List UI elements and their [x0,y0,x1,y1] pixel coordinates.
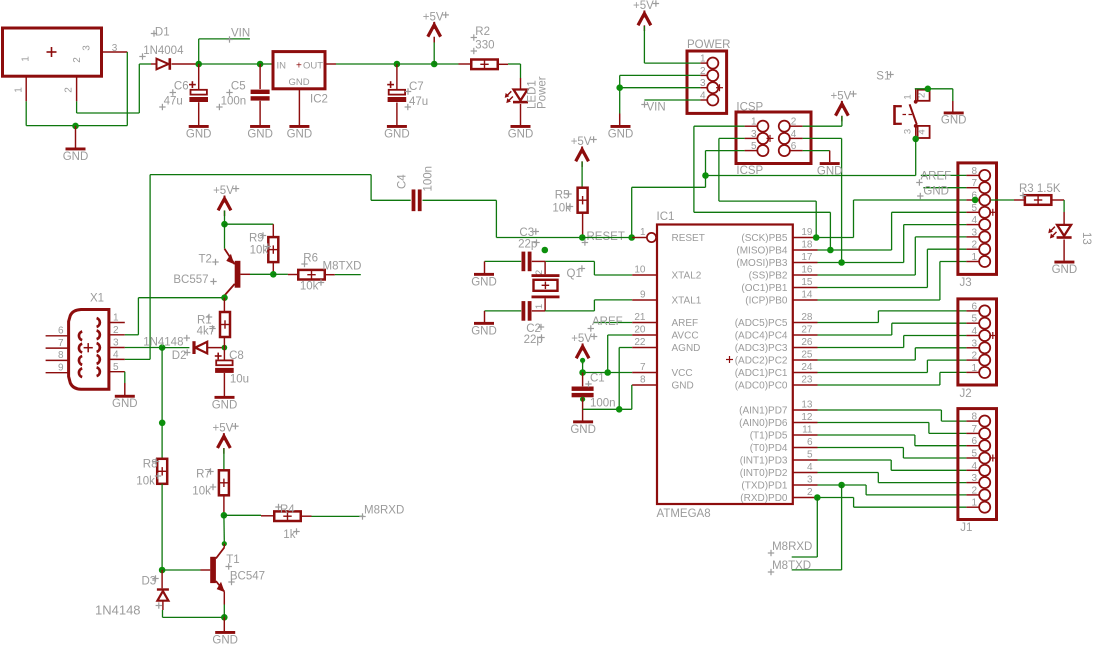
svg-text:3: 3 [700,78,706,89]
wire C2 left gnd [485,310,522,312]
wire jack pin1 to gnd rail [25,101,27,125]
svg-text:15: 15 [801,277,813,288]
svg-text:3: 3 [113,338,119,349]
wire R7 to R4 row [223,495,225,515]
diode D2 1N4148 [172,341,207,362]
svg-text:21: 21 [634,312,646,323]
switch S1 [876,71,929,139]
junction AVCC VCC [604,369,611,376]
svg-text:GND: GND [288,77,309,88]
svg-text:XTAL2: XTAL2 [672,271,702,282]
supply +5V R5 [571,136,597,187]
ground C7 [384,125,410,140]
svg-text:6: 6 [971,301,977,312]
wire ICSP pin1 MISO [694,126,831,250]
resistor R6 10k [298,253,325,293]
wire C1 gnd tee [582,398,584,421]
wire PD net y460 [818,460,967,470]
svg-text:R9: R9 [249,232,264,244]
junction phantom R8 [159,420,166,427]
capacitor C6 47u [159,64,208,125]
svg-text:(SCK)PB5: (SCK)PB5 [741,233,788,244]
label 1N4148 D2 [143,335,190,349]
label M8RXD left [359,505,404,520]
svg-text:GND: GND [570,424,596,436]
wire T2 emitter drop [224,224,226,249]
svg-text:2: 2 [971,351,977,362]
svg-text:ICSP: ICSP [736,101,763,113]
junction PB5 icsp [813,234,820,241]
svg-text:3: 3 [82,45,93,51]
svg-text:1: 1 [700,54,706,65]
capacitor C8 10u [215,348,249,396]
diode D1 1N4004 [139,27,198,70]
wire PD net y497.5 [818,498,967,508]
svg-text:GND: GND [923,185,949,197]
junction C5 node [257,61,264,68]
svg-text:18: 18 [801,240,813,251]
wire R6 to M8TXD [325,274,361,276]
diode D3 1N4148 [95,570,169,618]
wire T2 collector [224,296,226,298]
wire T1 emitter gnd [223,605,225,632]
ground led13 [1052,240,1078,277]
wire PB1 net [818,249,967,287]
svg-text:10k: 10k [136,476,155,488]
wire PC net y347.5 [818,336,967,348]
wire R3 to led [1052,200,1064,225]
svg-text:R5: R5 [555,190,570,202]
wire PB2 net [818,237,967,275]
svg-text:D3: D3 [142,576,157,588]
svg-text:M8TXD: M8TXD [323,261,362,273]
svg-text:6: 6 [58,326,64,337]
svg-text:20: 20 [634,325,646,336]
junction jack gnd [72,123,79,130]
capacitor C3 22p [518,227,540,271]
wire PD net y472.5 [818,473,967,483]
wire ICSP pin4 MOSI [803,138,842,262]
svg-text:GND: GND [287,128,313,140]
wire J3 pin6 to R3 [991,199,1025,201]
svg-text:(RXD)PD0: (RXD)PD0 [740,493,788,504]
led LED1 Power [505,76,549,125]
node VIN junction [195,61,202,68]
svg-text:+5V: +5V [423,11,444,23]
wire X1 pin2 to T2 [125,298,225,335]
svg-text:10u: 10u [230,373,249,385]
svg-text:12: 12 [801,412,813,423]
wire R2 to LED1 [498,64,521,78]
svg-text:5: 5 [113,362,119,373]
label M8RXD right [768,541,813,556]
supply +5V C1 [571,333,597,373]
wire PD net y410 [818,410,967,421]
wire POWER pin2 [620,74,701,76]
svg-text:4: 4 [791,129,797,140]
svg-text:7: 7 [58,338,64,349]
svg-text:330: 330 [475,40,494,52]
junction T1 base [159,567,166,574]
wire POWER pin4 VIN [644,99,700,101]
svg-text:7: 7 [640,362,646,373]
wire PD net y435 [818,435,967,446]
wire VIN label stub [199,39,250,64]
svg-text:M8TXD: M8TXD [772,560,811,572]
svg-text:2: 2 [971,240,977,251]
supply +5V ICSP [831,90,857,126]
svg-text:+5V: +5V [213,423,234,435]
resistor R4 1k [274,504,301,541]
label M8TXD left [323,261,362,273]
label AREF ic [588,316,633,332]
svg-text:2: 2 [72,57,83,63]
label VIN power [641,101,665,113]
svg-text:17: 17 [801,252,813,263]
svg-text:22p: 22p [524,334,543,346]
header J1 [958,409,997,534]
ic IC1 ATMEGA8 [632,211,817,520]
junction C1 bottom [580,397,585,402]
junction reset icsp5 [702,172,709,179]
svg-text:5: 5 [807,450,813,461]
svg-text:22p: 22p [518,238,537,250]
wire AGND [619,348,632,410]
wire C3 left gnd [485,260,522,262]
svg-text:M8RXD: M8RXD [772,541,812,553]
wire 5v to R9 [225,223,274,225]
wire PB5 net [818,200,967,238]
jack pin 3 stub [102,43,128,54]
junction PB4 icsp [827,247,834,254]
junction T2 5v [221,221,228,228]
wire base to R6 [273,273,298,275]
wire C7 to +5V node [397,63,434,65]
wire X1 pin3 to D2 [125,347,162,349]
svg-text:47u: 47u [164,96,183,108]
junction S1 bottom [912,136,919,143]
svg-text:C5: C5 [231,81,246,93]
svg-text:(MISO)PB4: (MISO)PB4 [736,246,788,257]
svg-text:1: 1 [751,117,757,128]
regulator IC2 [273,52,328,106]
svg-text:4: 4 [971,326,977,337]
wire C4 to reset [423,200,583,237]
resistor R2 330 [471,26,498,69]
svg-text:(OC1)PB1: (OC1)PB1 [741,283,788,294]
svg-text:IC1: IC1 [657,211,675,223]
svg-text:100n: 100n [221,96,247,108]
supply +5V top [423,11,449,64]
wire reset row [582,237,631,239]
svg-text:16: 16 [801,265,813,276]
svg-text:7: 7 [971,424,977,435]
svg-text:4: 4 [700,91,706,102]
wire PC net y335 [818,323,967,335]
svg-text:+5V: +5V [571,136,592,148]
svg-text:5: 5 [971,449,977,460]
svg-text:S1: S1 [876,71,890,83]
svg-text:OUT: OUT [303,60,323,71]
wire T1 base [162,569,200,571]
svg-text:1: 1 [971,363,977,374]
junction POWER gnd [616,84,623,91]
svg-text:M8RXD: M8RXD [364,505,404,517]
svg-text:(MOSI)PB3: (MOSI)PB3 [736,258,788,269]
svg-text:23: 23 [801,375,813,386]
junction T1 emitter gnd [221,614,228,621]
junction C7 node [394,61,401,68]
svg-text:GND: GND [1052,264,1078,276]
svg-text:J3: J3 [960,277,972,289]
ground C3 [471,261,497,288]
wire D3 bottom [163,610,225,617]
transistor T1 BC547 [201,544,266,605]
svg-text:3: 3 [971,473,977,484]
svg-text:24: 24 [801,362,813,373]
junction +5v c1 stem [580,358,585,363]
ground X1 [112,383,138,410]
wire PB3 net [818,225,967,263]
wire D2 left [162,347,189,349]
svg-text:R4: R4 [280,504,295,516]
svg-text:IC2: IC2 [310,94,328,106]
svg-text:GND: GND [941,114,967,126]
svg-text:GND: GND [247,128,273,140]
ground POWER [608,114,634,141]
svg-text:2: 2 [700,66,706,77]
svg-text:(ADC4)PC4: (ADC4)PC4 [735,331,788,342]
svg-text:C4: C4 [396,174,408,189]
svg-text:(ADC0)PC0: (ADC0)PC0 [735,381,788,392]
junction reset R5 [579,234,586,241]
resistor R5 10k [552,188,587,215]
svg-text:8: 8 [971,166,977,177]
svg-text:C1: C1 [590,373,605,385]
resistor R1 4k7 [197,298,230,338]
svg-text:3: 3 [971,338,977,349]
supply +5V power header [633,0,659,63]
junction PD0 rxd [814,494,821,501]
svg-text:R8: R8 [143,459,158,471]
svg-text:C7: C7 [409,81,424,93]
svg-text:28: 28 [801,312,813,323]
svg-text:4: 4 [971,215,977,226]
wire S1 top [915,88,953,90]
capacitor C1 100n [572,373,616,410]
svg-text:100n: 100n [590,398,616,410]
svg-text:4: 4 [971,461,977,472]
wire R4 to M8RXD [301,515,364,517]
svg-text:Power: Power [537,76,549,109]
jack pin 1 stub [14,76,27,101]
svg-text:9: 9 [58,363,64,374]
svg-text:+5V: +5V [831,90,852,102]
junction AGND gndrow [616,406,623,413]
wire R8 to T1 base junction [161,484,163,570]
supply +5V R7 [213,423,239,471]
svg-text:1: 1 [14,87,25,93]
wire crystal to XTAL1 [594,300,632,311]
junction S1 top [925,86,932,93]
svg-text:(AIN1)PD7: (AIN1)PD7 [739,406,788,417]
capacitor C7 47u [387,64,428,125]
svg-text:(INT0)PD2: (INT0)PD2 [740,468,788,479]
ground C5 [247,125,273,140]
svg-text:GND: GND [384,128,410,140]
svg-text:1: 1 [534,304,545,309]
svg-text:GND: GND [672,381,694,392]
wire to R2 [434,63,471,65]
connector X1 DB9 [46,293,125,390]
header POWER [687,39,730,113]
svg-text:R3 1.5K: R3 1.5K [1019,183,1061,195]
svg-text:22: 22 [634,337,646,348]
svg-text:GND: GND [608,128,634,140]
junction D2 left [159,344,166,351]
wire M8RXD right [792,498,818,558]
wire X1 pin4 riser connect [125,358,150,360]
capacitor C4 100n [396,166,434,211]
wire POWER pin3 [620,87,701,89]
svg-text:GND: GND [112,398,138,410]
svg-text:GND: GND [471,276,497,288]
svg-text:+5V: +5V [213,185,234,197]
supply +5V T2 [213,185,239,224]
wire PD net y447.5 [818,448,967,459]
svg-text:1k: 1k [283,529,295,541]
wire PC net y360 [818,348,967,360]
wire +5V to POWER pin1 [644,62,700,64]
svg-text:(ADC1)PC1: (ADC1)PC1 [735,368,788,379]
crystal Q1 [532,265,586,298]
junction PD1 txd [838,482,845,489]
svg-text:ATMEGA8: ATMEGA8 [657,508,711,520]
wire PB0 net [818,262,967,301]
wire R5 to reset row [582,213,584,238]
svg-text:GND: GND [212,634,238,646]
wire jack pin2 to D1 [77,64,151,113]
led 13 [1048,225,1092,245]
svg-text:1: 1 [640,227,646,238]
ground C8 [212,396,238,411]
svg-text:27: 27 [801,325,813,336]
svg-text:2: 2 [113,325,119,336]
junction T1 collector [222,541,227,546]
svg-text:1: 1 [113,313,119,324]
ground ICSP [817,162,843,177]
svg-text:C6: C6 [174,81,189,93]
svg-text:VIN: VIN [231,28,250,40]
junction R9 base [270,271,277,278]
svg-text:(ADC3)PC3: (ADC3)PC3 [735,343,788,354]
svg-text:POWER: POWER [687,39,730,51]
svg-text:10k: 10k [552,203,571,215]
resistor R7 10k [192,468,229,497]
wire R9 to base row [272,262,274,275]
svg-text:5: 5 [971,203,977,214]
svg-text:(ADC2)PC2: (ADC2)PC2 [735,356,788,367]
svg-text:Q1: Q1 [567,268,582,280]
svg-text:(INT1)PD3: (INT1)PD3 [740,456,788,467]
label VIN [226,28,250,43]
wire M8TXD right [792,485,842,570]
svg-text:GND: GND [63,151,89,163]
svg-text:+5V: +5V [571,333,592,345]
wire to IC2 IN [260,63,273,65]
wire D2 to R8 [161,348,163,459]
svg-text:1: 1 [21,56,32,62]
svg-text:5: 5 [751,141,757,152]
svg-text:BC557: BC557 [173,274,208,286]
ground T1 [212,631,238,646]
svg-text:1: 1 [971,252,977,263]
svg-text:XTAL1: XTAL1 [672,296,702,307]
junction T2 collector R1 [221,294,228,301]
svg-text:10: 10 [634,265,646,276]
svg-text:+5V: +5V [633,0,654,12]
svg-text:GND: GND [186,128,212,140]
wire S1 to reset net [706,139,916,176]
svg-text:R7: R7 [196,469,211,481]
svg-text:3: 3 [751,129,757,140]
wire PD net y422.5 [818,423,967,434]
header J2 [958,299,997,400]
junction D2 right [222,345,228,351]
ground C2 [471,311,497,337]
svg-text:(ICP)PB0: (ICP)PB0 [745,296,788,307]
wire VIN to C5 node [199,63,260,65]
svg-text:(T1)PD5: (T1)PD5 [750,431,788,442]
svg-text:C3: C3 [519,227,534,239]
svg-text:19: 19 [801,227,813,238]
svg-text:3: 3 [807,475,813,486]
ground LED1 [508,125,534,140]
svg-text:4: 4 [113,350,119,361]
junction R4 row [221,512,228,519]
svg-text:3: 3 [903,129,914,134]
svg-text:4: 4 [917,129,928,134]
wire R1 bottom [223,337,225,348]
svg-text:13: 13 [1080,232,1092,245]
svg-text:(AIN0)PD6: (AIN0)PD6 [739,418,788,429]
svg-text:AREF: AREF [672,318,699,329]
resistor R3 1.5K [1019,183,1061,205]
svg-text:J1: J1 [960,522,972,534]
svg-text:6: 6 [971,436,977,447]
wire C3 to crystal pin2 [532,260,595,262]
svg-text:1N4004: 1N4004 [143,45,184,57]
svg-text:IN: IN [277,60,287,71]
label AREF J3 [916,171,966,186]
wire PC net y372.5 [818,360,967,372]
svg-text:14: 14 [801,290,813,301]
ground C1 [570,420,596,435]
svg-text:6: 6 [791,141,797,152]
crystal pin1 lead [534,298,545,311]
wire AVCC [608,335,633,373]
wire PC net y322.5 [818,311,967,323]
svg-text:2: 2 [807,487,813,498]
wire crystal to XTAL2 [594,261,632,275]
svg-text:VCC: VCC [672,368,693,379]
svg-text:8: 8 [640,375,646,386]
svg-text:2: 2 [917,93,928,98]
svg-text:13: 13 [801,400,813,411]
svg-text:3: 3 [112,43,118,54]
wire GND row to pin8 [583,385,633,409]
wire jack pin3 to gnd rail [26,52,127,126]
